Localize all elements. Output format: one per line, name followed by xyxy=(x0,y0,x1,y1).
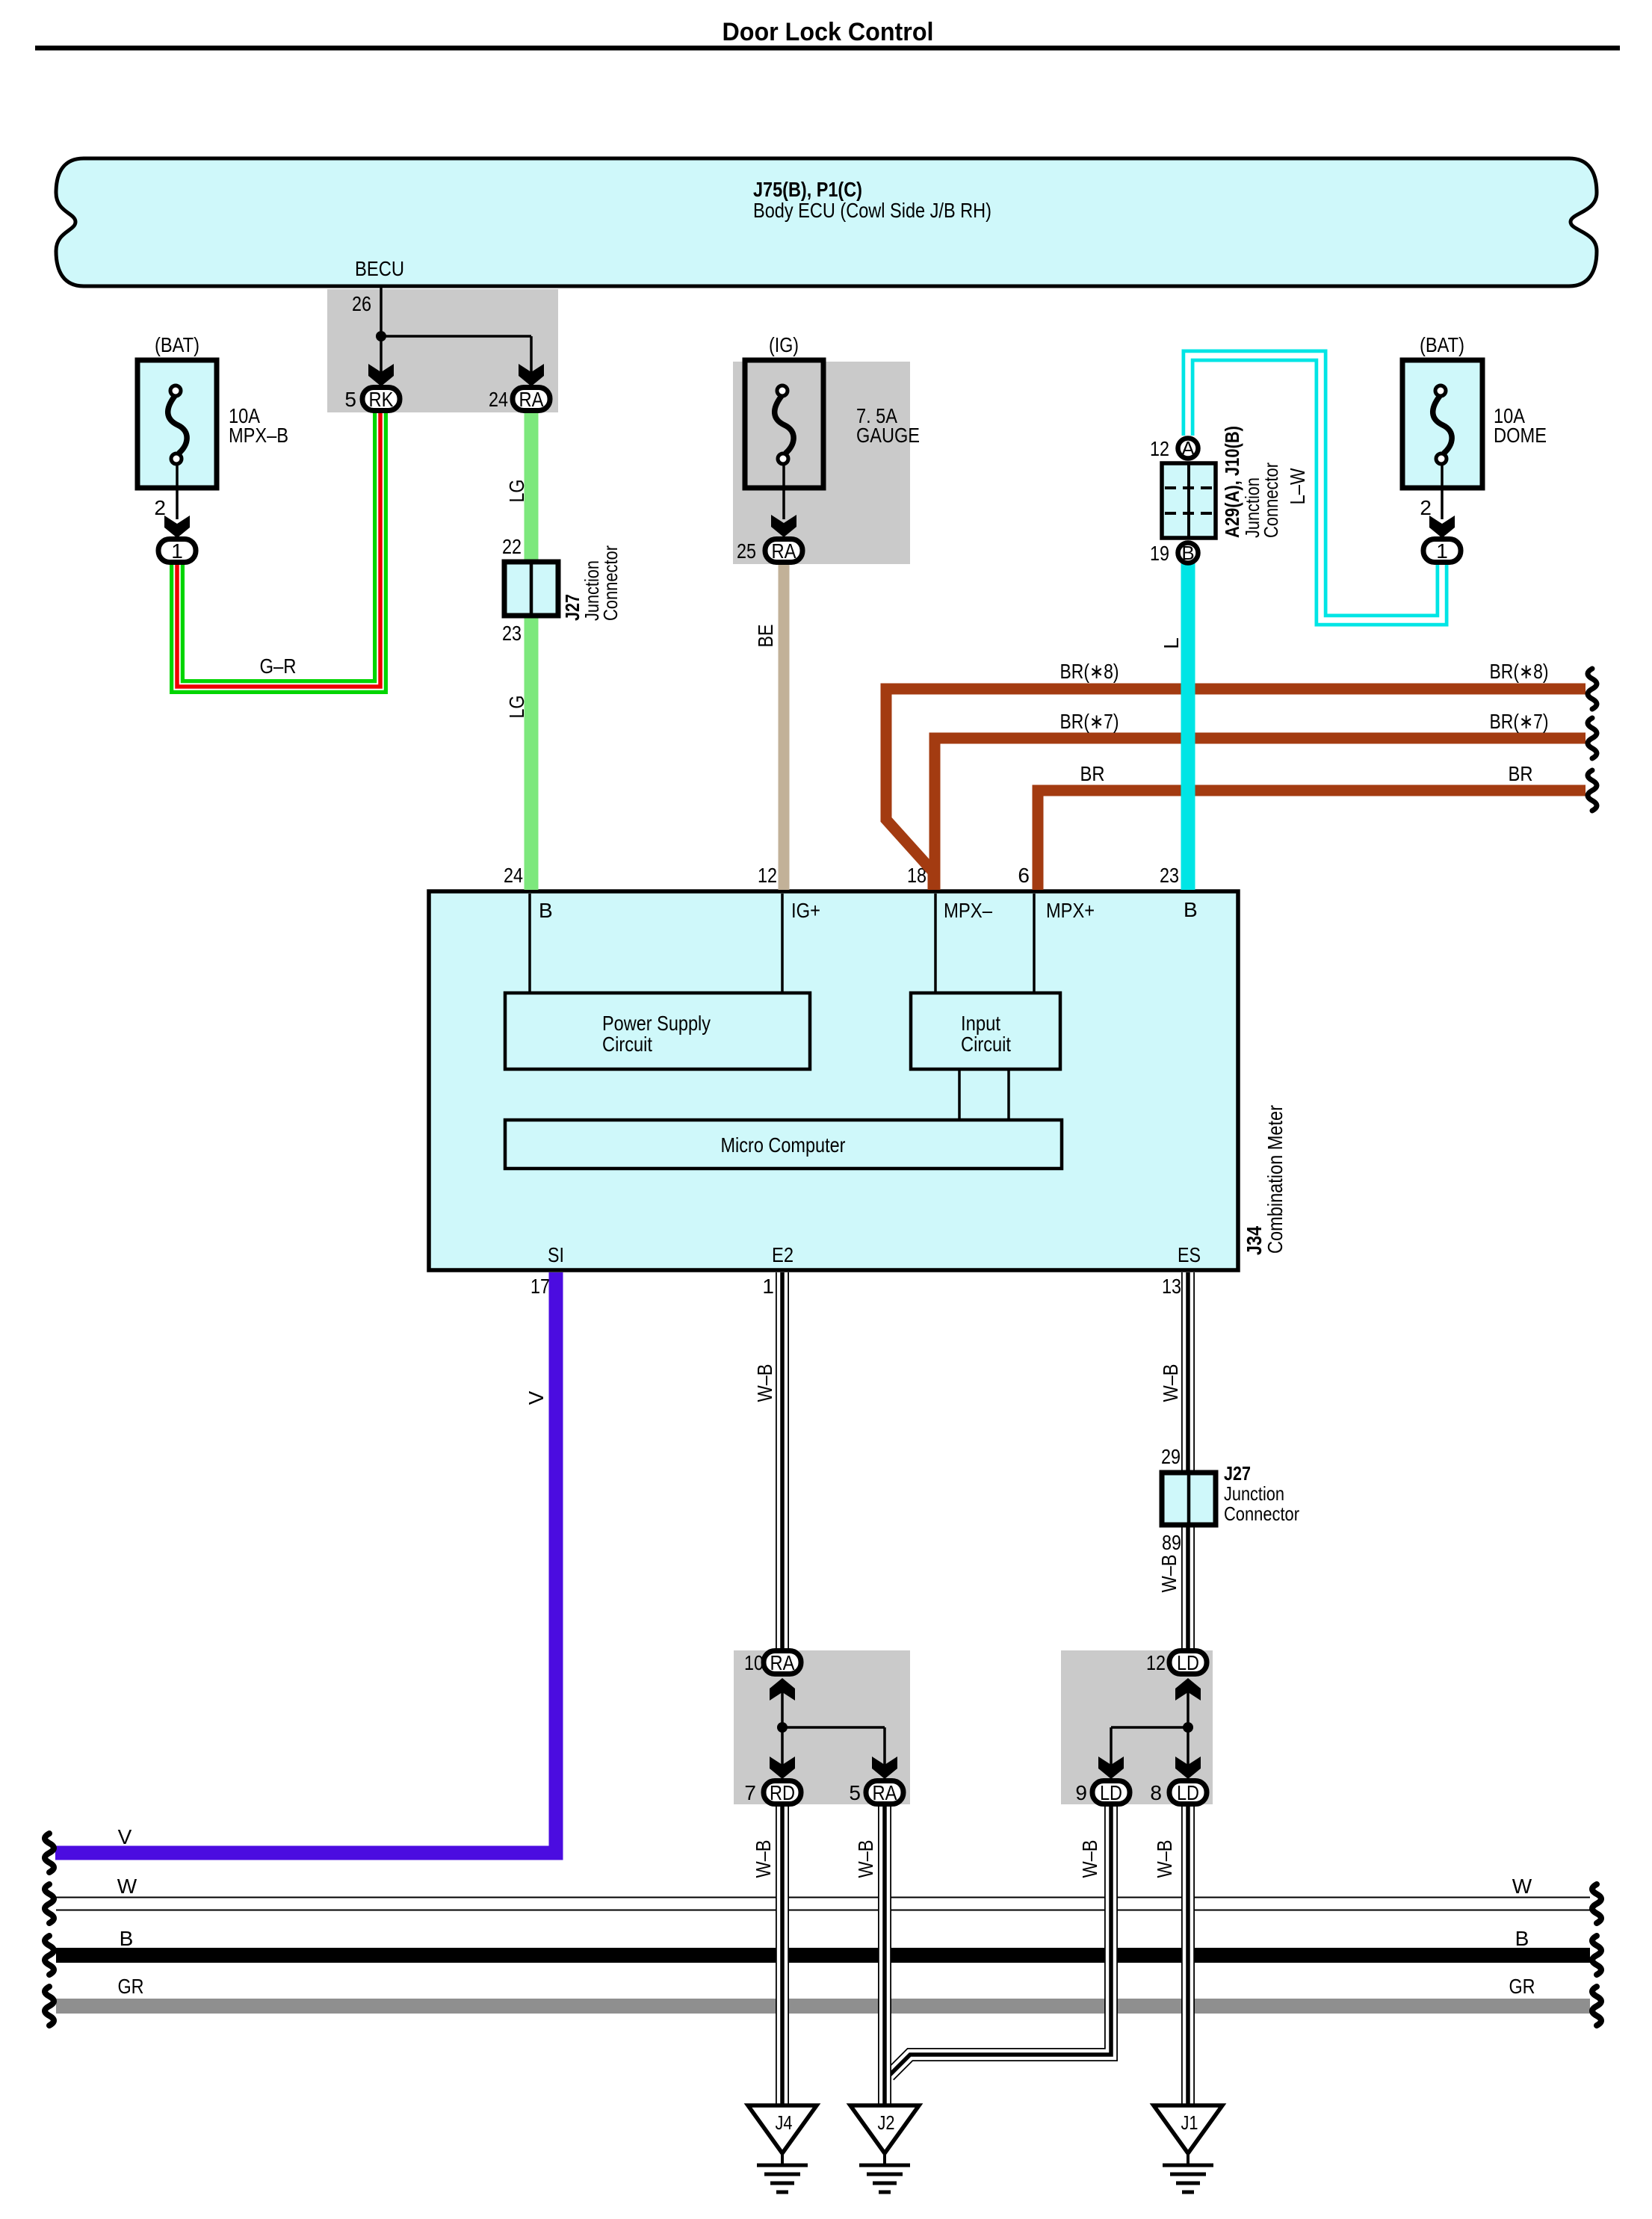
svg-text:DOME: DOME xyxy=(1494,424,1547,447)
svg-text:5: 5 xyxy=(344,388,356,411)
svg-text:9: 9 xyxy=(1075,1781,1087,1804)
svg-text:W–B: W–B xyxy=(1159,1364,1182,1402)
connector oval 24 RA xyxy=(489,388,550,412)
svg-text:Input: Input xyxy=(961,1012,1000,1035)
svg-text:LD: LD xyxy=(1100,1781,1122,1804)
ECU block J75(B),P1(C) Body ECU (Cowl Side J/B RH) xyxy=(56,158,1597,286)
svg-text:26: 26 xyxy=(352,292,371,315)
svg-text:Connector: Connector xyxy=(599,545,622,621)
svg-text:J2: J2 xyxy=(878,2111,895,2134)
svg-text:BR: BR xyxy=(1509,762,1533,785)
ground J1 xyxy=(1154,2105,1222,2192)
svg-text:W–B: W–B xyxy=(1157,1555,1181,1593)
svg-text:23: 23 xyxy=(502,622,522,645)
wire V: meter pin 17 SI to left cut xyxy=(45,1272,556,1872)
svg-text:A29(A), J10(B): A29(A), J10(B) xyxy=(1221,426,1243,538)
svg-text:1: 1 xyxy=(762,1275,774,1298)
svg-text:W–B: W–B xyxy=(854,1840,877,1878)
wire BE: GAUGE fuse 25 RA to meter pin 12 IG+ xyxy=(754,563,784,890)
svg-text:12: 12 xyxy=(758,864,777,887)
svg-text:B: B xyxy=(1181,542,1194,564)
svg-text:8: 8 xyxy=(1150,1781,1162,1804)
connector oval 10 RA xyxy=(744,1651,801,1675)
block: Micro Computer xyxy=(505,1120,1062,1169)
svg-text:7: 7 xyxy=(744,1781,756,1804)
junction connector A29(A), J10(B) xyxy=(1162,426,1282,538)
svg-text:Circuit: Circuit xyxy=(961,1033,1011,1056)
svg-text:2: 2 xyxy=(154,496,166,519)
connector oval 5 RK xyxy=(344,388,400,412)
svg-text:A: A xyxy=(1181,437,1195,459)
ECU block J34 Combination Meter xyxy=(429,891,1238,1270)
shaded area: GAUGE fuse group xyxy=(733,362,910,564)
svg-text:LD: LD xyxy=(1177,1781,1199,1804)
wire W-B: meter pin 13 ES down to J27 xyxy=(1159,1272,1188,1475)
svg-text:RA: RA xyxy=(770,1651,795,1674)
connector oval 8 LD xyxy=(1150,1781,1207,1805)
junction connector J27 (LG wire) xyxy=(502,535,622,645)
svg-text:RD: RD xyxy=(770,1781,795,1804)
wire W-B: 8 LD to ground J1 xyxy=(1153,1804,1188,2105)
wire W-B: J27 to 12 LD xyxy=(1157,1523,1188,1649)
svg-text:23: 23 xyxy=(1160,864,1179,887)
svg-text:B: B xyxy=(120,1927,134,1950)
svg-text:W–B: W–B xyxy=(1078,1840,1101,1878)
svg-text:GR: GR xyxy=(118,1975,144,1998)
svg-text:W–B: W–B xyxy=(1153,1840,1176,1878)
svg-text:24: 24 xyxy=(489,388,508,411)
svg-text:Junction: Junction xyxy=(1224,1482,1284,1505)
wire BR(*7): right cut to meter pin 18 MPX- xyxy=(935,710,1586,890)
svg-text:RA: RA xyxy=(519,388,544,411)
node: junction dot (LD) xyxy=(1111,1722,1193,1774)
svg-text:BR: BR xyxy=(1080,762,1105,785)
arrow into 5 RK xyxy=(368,364,394,386)
shaded area: RA/RD connector group xyxy=(734,1650,910,1804)
svg-text:W: W xyxy=(117,1875,137,1898)
svg-text:22: 22 xyxy=(502,535,522,558)
svg-text:BR(∗8): BR(∗8) xyxy=(1490,660,1549,683)
svg-text:B: B xyxy=(1515,1927,1529,1950)
node: junction dot (RA/RD) xyxy=(777,1722,885,1774)
svg-text:1: 1 xyxy=(171,539,183,563)
meter pin numbers 24,12,18,6,23 top / 17,1,13 bottom xyxy=(504,864,1181,1298)
svg-text:GR: GR xyxy=(1509,1975,1535,1998)
wire BR(*8): right cut to meter pin 18 MPX- xyxy=(886,660,1586,890)
svg-text:LG: LG xyxy=(505,696,528,719)
svg-text:Circuit: Circuit xyxy=(602,1033,652,1056)
connector oval 1 (MPX-B) xyxy=(158,539,196,563)
svg-text:24: 24 xyxy=(504,864,523,887)
svg-text:W–B: W–B xyxy=(752,1840,775,1878)
connector oval 9 LD xyxy=(1075,1781,1130,1805)
svg-text:17: 17 xyxy=(530,1275,550,1298)
arrow up into 10 RA xyxy=(770,1678,795,1727)
wire G-R: fuse MPX-B pin1 to BECU pin 5 RK xyxy=(177,411,380,687)
svg-text:12: 12 xyxy=(1150,437,1169,460)
svg-text:B: B xyxy=(539,899,553,922)
wire W-B: 9 LD jog joining ground J2 xyxy=(889,1804,1111,2076)
svg-text:Connector: Connector xyxy=(1224,1502,1299,1525)
meter terminal labels xyxy=(539,898,1201,1266)
wire W-B: meter pin 1 E2 down to 10 RA xyxy=(753,1272,782,1649)
svg-text:BECU: BECU xyxy=(355,257,404,280)
svg-text:SI: SI xyxy=(548,1243,564,1266)
svg-text:12: 12 xyxy=(1146,1651,1166,1674)
bus wire GR xyxy=(45,1975,1601,2025)
svg-text:Connector: Connector xyxy=(1260,462,1282,538)
svg-text:RA: RA xyxy=(873,1781,897,1804)
arrow into 5 RA xyxy=(872,1757,897,1779)
wire W-B: 5 RA to ground J2 xyxy=(854,1804,885,2105)
block: Input Circuit xyxy=(911,993,1060,1069)
connector oval 1 (DOME) xyxy=(1423,539,1461,563)
svg-text:B: B xyxy=(1184,898,1198,921)
shaded area: LD connector group xyxy=(1061,1650,1213,1804)
connector oval 25 RA xyxy=(737,539,802,563)
arrow into 7 RD xyxy=(770,1757,795,1779)
wire: fuse MPX-B to pin 2 / oval 1 xyxy=(154,463,190,538)
svg-text:Door Lock Control: Door Lock Control xyxy=(723,18,934,46)
arrow into 24 RA xyxy=(519,364,544,386)
svg-text:5: 5 xyxy=(849,1781,861,1804)
fuse 10A DOME xyxy=(1402,333,1547,488)
connector oval 12 LD xyxy=(1146,1651,1207,1675)
fuse 10A MPX-B xyxy=(137,333,288,488)
svg-text:MPX–: MPX– xyxy=(944,899,992,922)
wire L: junction connector B to meter pin 23 B xyxy=(1160,563,1188,890)
ground J2 xyxy=(850,2105,919,2192)
svg-text:J34: J34 xyxy=(1243,1226,1266,1255)
svg-text:W: W xyxy=(1512,1875,1532,1898)
svg-text:E2: E2 xyxy=(772,1243,793,1266)
wire L-W: junction connector A to DOME fuse pin 1 xyxy=(1188,356,1442,620)
svg-text:GAUGE: GAUGE xyxy=(856,424,920,447)
svg-text:V: V xyxy=(118,1825,132,1848)
wire BR: right cut to meter pin 6 MPX+ xyxy=(1038,762,1586,890)
wire W-B: 7 RD to ground J4 xyxy=(752,1804,782,2105)
arrow into 9 LD xyxy=(1098,1757,1124,1779)
svg-text:ES: ES xyxy=(1178,1243,1201,1266)
svg-text:10: 10 xyxy=(744,1651,764,1674)
junction connector J27 (ES wire) xyxy=(1161,1445,1299,1554)
svg-text:13: 13 xyxy=(1162,1275,1181,1298)
svg-text:IG+: IG+ xyxy=(791,899,820,922)
svg-text:BR(∗8): BR(∗8) xyxy=(1060,660,1119,683)
svg-text:25: 25 xyxy=(737,539,756,563)
svg-text:J1: J1 xyxy=(1181,2111,1198,2134)
arrow into 8 LD xyxy=(1175,1757,1201,1779)
svg-text:(IG): (IG) xyxy=(769,333,799,356)
wire BECU: bar to junction dot, branch to pins 5 RK / 24 RA xyxy=(352,257,531,372)
svg-text:BR(∗7): BR(∗7) xyxy=(1490,710,1549,733)
svg-text:BE: BE xyxy=(754,625,777,648)
connector circle 12 A xyxy=(1150,437,1198,460)
svg-text:J27: J27 xyxy=(1224,1462,1251,1485)
svg-text:1: 1 xyxy=(1436,539,1448,563)
connector oval 7 RD xyxy=(744,1781,801,1805)
svg-text:RA: RA xyxy=(772,539,796,563)
label J34 / Combination Meter (rotated) xyxy=(1243,1105,1287,1255)
svg-text:L: L xyxy=(1160,637,1183,649)
svg-text:Body ECU (Cowl Side J/B RH): Body ECU (Cowl Side J/B RH) xyxy=(753,199,991,222)
ground J4 xyxy=(748,2105,817,2192)
wire: fuse GAUGE to 25 RA xyxy=(771,463,796,537)
svg-text:W–B: W–B xyxy=(753,1364,776,1402)
svg-text:MPX–B: MPX–B xyxy=(229,424,288,447)
cut marks on BR wires xyxy=(1588,669,1597,811)
svg-text:J75(B), P1(C): J75(B), P1(C) xyxy=(753,178,862,201)
svg-text:LD: LD xyxy=(1177,1651,1199,1674)
svg-text:6: 6 xyxy=(1018,864,1030,887)
title: Door Lock Control xyxy=(35,18,1620,51)
svg-text:L–W: L–W xyxy=(1286,468,1309,504)
bus wire B xyxy=(45,1927,1601,1975)
bus wire W xyxy=(45,1875,1601,1923)
svg-text:LG: LG xyxy=(505,480,528,503)
svg-text:19: 19 xyxy=(1150,542,1169,565)
fuse 7.5A GAUGE xyxy=(745,333,920,488)
wire: fuse DOME to pin 2 / oval 1 xyxy=(1420,463,1455,538)
svg-text:V: V xyxy=(525,1390,548,1405)
arrow up into 12 LD xyxy=(1175,1678,1201,1727)
svg-text:(BAT): (BAT) xyxy=(155,333,199,356)
svg-text:2: 2 xyxy=(1420,496,1432,519)
wire: Input Circuit to Micro Computer links xyxy=(959,1069,1009,1120)
svg-text:89: 89 xyxy=(1162,1531,1181,1554)
connector oval 5 RA xyxy=(849,1781,903,1805)
svg-text:Combination Meter: Combination Meter xyxy=(1263,1105,1287,1254)
svg-text:MPX+: MPX+ xyxy=(1046,899,1095,922)
connector circle 19 B xyxy=(1150,542,1198,565)
shaded area: BECU connector group xyxy=(327,289,558,412)
svg-text:(BAT): (BAT) xyxy=(1420,333,1464,356)
block: Power Supply Circuit xyxy=(505,993,810,1069)
svg-text:G–R: G–R xyxy=(260,654,297,678)
svg-text:29: 29 xyxy=(1161,1445,1181,1468)
wire LG: BECU pin 24 RA to meter pin 24 B xyxy=(505,411,531,890)
svg-text:BR(∗7): BR(∗7) xyxy=(1060,710,1119,733)
svg-text:Power Supply: Power Supply xyxy=(602,1012,711,1035)
svg-text:Micro Computer: Micro Computer xyxy=(721,1133,846,1157)
svg-text:J4: J4 xyxy=(776,2111,793,2134)
svg-text:RK: RK xyxy=(369,388,394,411)
